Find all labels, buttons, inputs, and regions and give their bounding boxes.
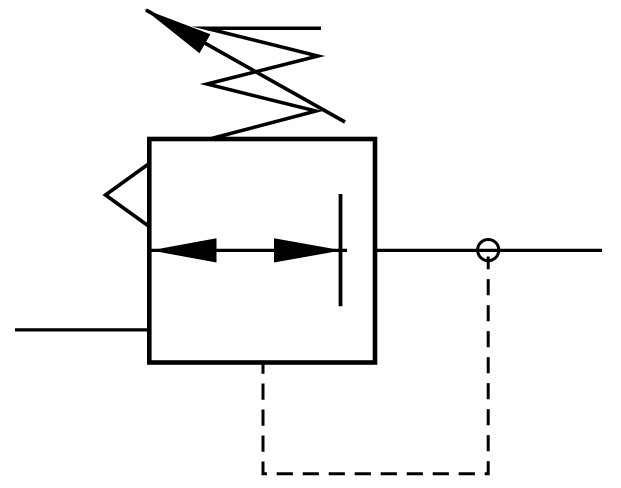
vent/gauge circle: [478, 240, 499, 261]
adjustment arrow shaft: [146, 10, 345, 122]
left sensing spring chevron: [106, 164, 149, 226]
internal passage shaft: [151, 249, 347, 252]
left flow arrowhead: [151, 238, 217, 262]
inlet line: [15, 328, 149, 331]
adjusting spring (zigzag): [206, 28, 321, 138]
valve body (regulator envelope): [149, 139, 375, 363]
adjustment arrowhead: [144, 9, 210, 53]
right flow arrowhead: [274, 238, 342, 262]
valve seat bar: [339, 194, 343, 306]
outlet line: [373, 249, 602, 252]
pilot line (dashed feedback): [263, 257, 488, 474]
